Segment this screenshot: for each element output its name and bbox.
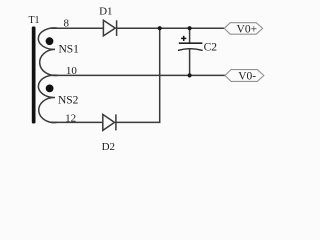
capacitor C2 plus sign — [181, 36, 186, 41]
junction dot rail/riser — [158, 26, 162, 30]
wire pin8 to D1 anode — [51, 27, 103, 29]
transformer T1 core — [32, 27, 36, 124]
svg-text:V0+: V0+ — [237, 24, 258, 36]
wire D2 cathode up to node at pin8 rail — [116, 28, 160, 122]
junction dot C2 bottom — [188, 73, 192, 77]
wire D1 cathode to V0+ — [117, 27, 225, 29]
capacitor C2 bottom plate (curved) — [178, 49, 203, 51]
winding NS1 — [38, 28, 58, 76]
svg-text:NS1: NS1 — [58, 44, 79, 56]
winding NS2 — [38, 75, 58, 122]
junction dot C2 top — [188, 26, 192, 30]
port V0- — [225, 70, 264, 83]
capacitor C2 bottom lead — [189, 48, 191, 75]
diode D1 — [103, 20, 116, 36]
capacitor C2 top lead — [189, 28, 191, 43]
svg-text:NS2: NS2 — [58, 95, 79, 107]
svg-text:D1: D1 — [99, 5, 112, 17]
diode D2 — [103, 114, 116, 130]
capacitor C2 top plate — [179, 42, 203, 44]
svg-text:T1: T1 — [28, 15, 39, 26]
wire pin12 to D2 anode — [51, 121, 103, 123]
svg-text:C2: C2 — [204, 41, 218, 53]
port V0+ — [224, 23, 262, 36]
polarity dot NS2 — [46, 85, 54, 93]
svg-text:D2: D2 — [102, 141, 115, 153]
svg-text:V0-: V0- — [238, 70, 256, 82]
polarity dot NS1 — [46, 37, 54, 45]
wire pin10 to V0- — [51, 74, 225, 76]
